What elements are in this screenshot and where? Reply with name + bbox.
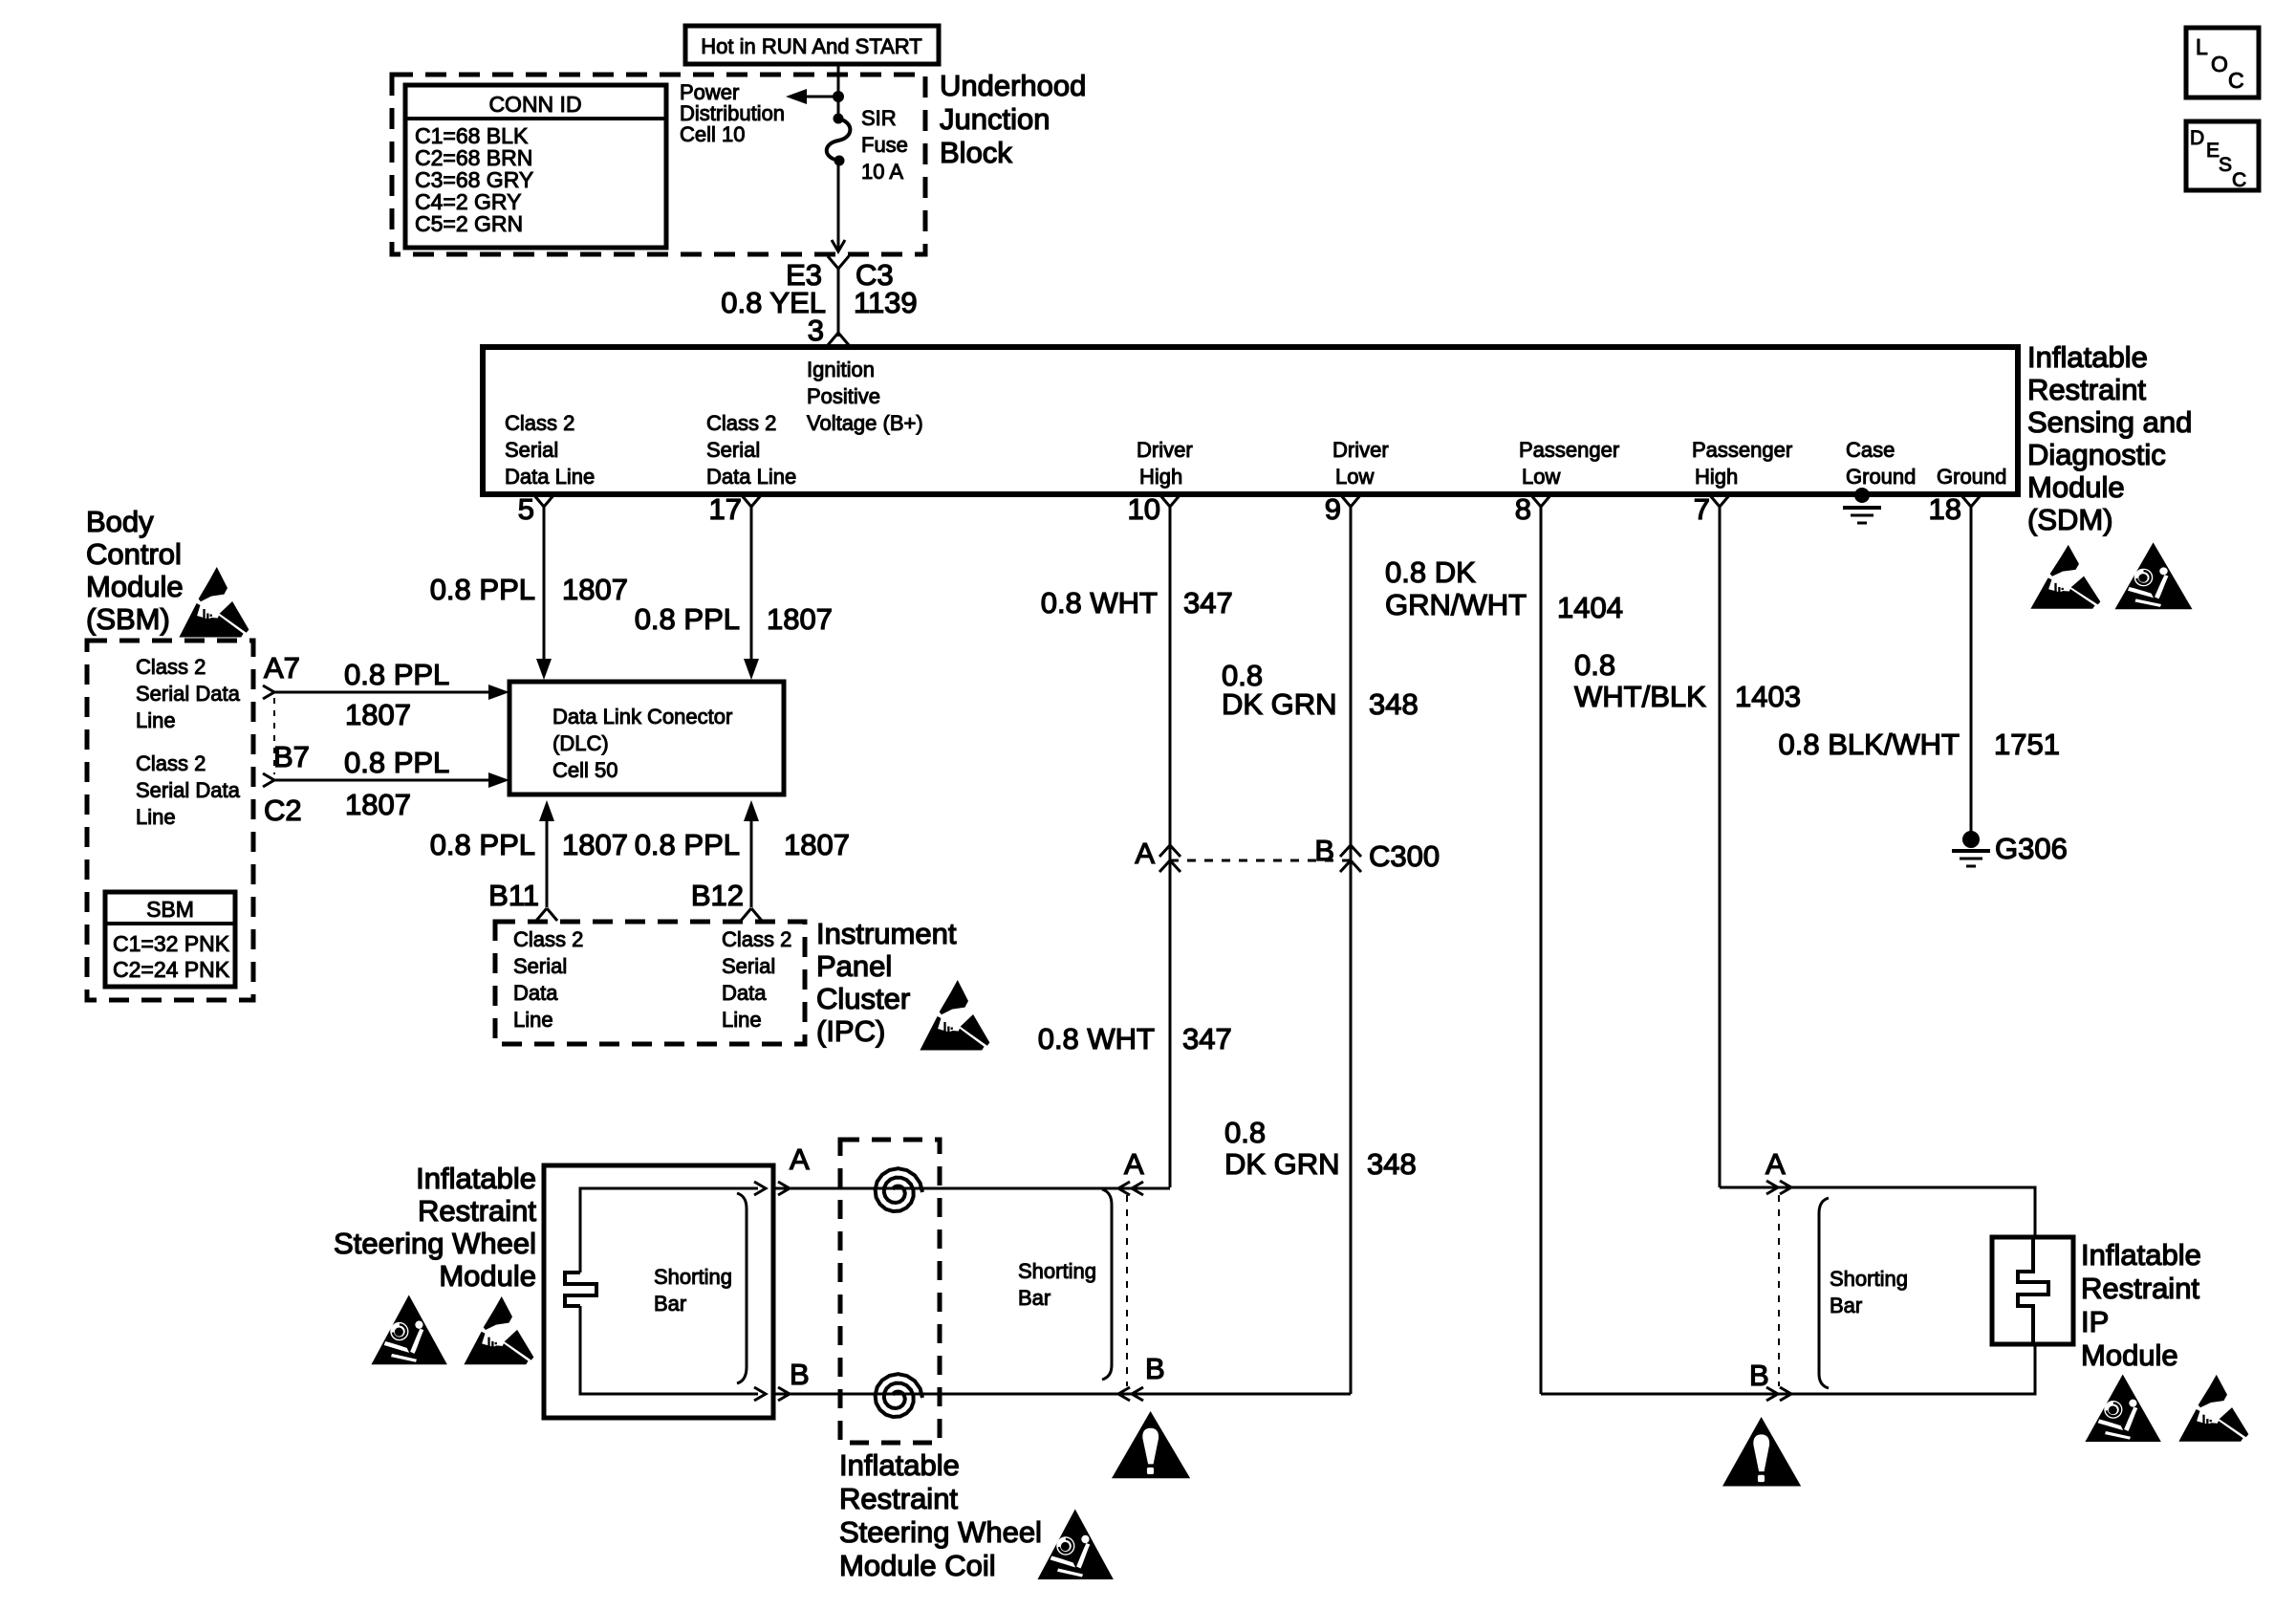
svg-text:Serial: Serial <box>505 438 558 462</box>
svg-text:G306: G306 <box>1995 832 2068 865</box>
svg-text:0.8 PPL: 0.8 PPL <box>635 828 740 861</box>
svg-text:Ground: Ground <box>1846 465 1916 489</box>
svg-text:Steering Wheel: Steering Wheel <box>839 1515 1042 1549</box>
wire C2 to DLC <box>274 779 492 782</box>
connector C300 <box>1170 859 1351 862</box>
svg-text:0.8 PPL: 0.8 PPL <box>635 602 740 636</box>
svg-text:8: 8 <box>1515 492 1531 526</box>
connector face dashed (coil side) <box>1126 1195 1128 1386</box>
ground G306 <box>1962 831 1980 848</box>
svg-text:Diagnostic: Diagnostic <box>2027 438 2166 471</box>
ESD icon near BCM label <box>179 567 249 638</box>
svg-text:1807: 1807 <box>345 788 411 821</box>
svg-text:Inflatable: Inflatable <box>416 1162 536 1195</box>
svg-text:17: 17 <box>709 492 742 526</box>
svg-text:Bar: Bar <box>1018 1286 1051 1310</box>
connector chevrons B (IP side) <box>1766 1387 1778 1401</box>
svg-text:B11: B11 <box>488 879 539 912</box>
LOC corner icon <box>2186 28 2259 98</box>
svg-text:Module: Module <box>86 570 184 603</box>
svg-text:CONN ID: CONN ID <box>488 92 581 117</box>
svg-text:Serial Data: Serial Data <box>136 682 241 706</box>
svg-text:Data Line: Data Line <box>505 465 595 489</box>
node junction dot <box>833 91 844 102</box>
svg-text:C1=32 PNK: C1=32 PNK <box>113 931 230 956</box>
wire pin 17 to DLC <box>750 507 753 664</box>
svg-text:B: B <box>1314 834 1334 867</box>
svg-text:IP: IP <box>2081 1305 2109 1338</box>
wire E3 to SDM pin 3 <box>837 269 840 337</box>
SWM internal wire top <box>580 1188 758 1273</box>
svg-text:Serial: Serial <box>722 954 775 978</box>
svg-text:Underhood: Underhood <box>940 69 1086 102</box>
svg-text:Serial: Serial <box>706 438 760 462</box>
svg-text:Line: Line <box>722 1008 762 1032</box>
wire B11 to DLC <box>546 816 549 907</box>
svg-text:High: High <box>1695 465 1738 489</box>
svg-text:D: D <box>2190 127 2204 149</box>
svg-text:Junction: Junction <box>940 102 1050 136</box>
SWM squib (driver inflator) <box>565 1273 596 1306</box>
svg-text:Data: Data <box>513 981 558 1005</box>
caution icon below B (IP side) <box>1722 1417 1801 1486</box>
wire A: SWM to wire 10 junction <box>773 1187 1170 1190</box>
svg-text:0.8 PPL: 0.8 PPL <box>344 658 449 691</box>
svg-text:Panel: Panel <box>816 949 892 983</box>
svg-text:Bar: Bar <box>1830 1294 1862 1317</box>
svg-text:348: 348 <box>1367 1147 1417 1181</box>
svg-text:Data: Data <box>722 981 767 1005</box>
svg-text:Module: Module <box>439 1259 536 1293</box>
svg-text:Low: Low <box>1335 465 1374 489</box>
svg-text:Class 2: Class 2 <box>136 655 206 679</box>
svg-text:Shorting: Shorting <box>1018 1259 1096 1283</box>
svg-text:C2: C2 <box>264 794 302 827</box>
wire pin 18 down to ground (BLK/WHT 1751) <box>1970 507 1973 832</box>
svg-text:SIR: SIR <box>861 106 897 130</box>
wire fuse to E3 <box>837 161 840 251</box>
svg-text:9: 9 <box>1325 492 1341 526</box>
svg-text:Block: Block <box>940 136 1012 169</box>
svg-text:Restraint: Restraint <box>839 1482 958 1515</box>
svg-text:Sensing and: Sensing and <box>2027 405 2192 439</box>
ESD icon near SWM label <box>464 1296 533 1364</box>
svg-text:1404: 1404 <box>1557 591 1623 624</box>
svg-text:L: L <box>2196 34 2208 59</box>
shorting bar bracket (IP side) <box>1819 1198 1829 1388</box>
svg-text:1139: 1139 <box>854 286 918 319</box>
svg-text:SBM: SBM <box>146 897 194 922</box>
connector chevrons A (IP side) <box>1766 1181 1778 1194</box>
svg-text:B: B <box>1749 1359 1769 1392</box>
wire pin 9 down (Driver Low 348) <box>1350 507 1353 1394</box>
svg-text:Class 2: Class 2 <box>505 411 574 435</box>
connector face dashed (IP side) <box>1778 1195 1780 1386</box>
svg-text:B7: B7 <box>273 740 310 773</box>
svg-text:Driver: Driver <box>1332 438 1389 462</box>
svg-text:1807: 1807 <box>562 573 628 606</box>
svg-text:(DLC): (DLC) <box>552 731 609 755</box>
wire B: SWM to wire 9 junction <box>773 1393 1351 1396</box>
wire pin 7 down (Passenger High 1403) <box>1719 507 1722 1187</box>
svg-text:Ignition: Ignition <box>807 358 875 381</box>
svg-text:A: A <box>1135 837 1155 870</box>
svg-text:1807: 1807 <box>562 828 628 861</box>
connector E3/C3 <box>828 256 849 269</box>
svg-text:Cell 10: Cell 10 <box>680 122 745 146</box>
wire B12 to DLC <box>750 816 753 907</box>
SDM module box <box>483 347 2018 494</box>
shorting bar bracket (coil side) <box>1102 1189 1112 1380</box>
coil spiral A <box>876 1168 922 1211</box>
svg-text:Inflatable: Inflatable <box>2027 340 2148 374</box>
airbag icon near IP label <box>2085 1374 2160 1442</box>
svg-text:0.8 PPL: 0.8 PPL <box>430 828 535 861</box>
svg-text:E: E <box>2206 140 2220 162</box>
svg-text:High: High <box>1139 465 1182 489</box>
caution icon below B (coil side) <box>1112 1411 1190 1478</box>
svg-text:Shorting: Shorting <box>654 1265 732 1289</box>
svg-text:0.8: 0.8 <box>1224 1116 1266 1149</box>
svg-text:Class 2: Class 2 <box>513 927 583 951</box>
DESC corner icon <box>2186 121 2259 190</box>
IP squib (passenger inflator) <box>2018 1237 2048 1344</box>
wire pin 5 to DLC <box>543 507 546 664</box>
airbag icon near coil label <box>1037 1510 1113 1580</box>
label box "Hot in RUN And START" <box>685 26 939 64</box>
arrow to power distribution (left) <box>795 96 838 98</box>
svg-text:Cell 50: Cell 50 <box>552 758 617 782</box>
svg-text:1403: 1403 <box>1735 680 1801 713</box>
svg-text:O: O <box>2211 52 2228 76</box>
svg-text:S: S <box>2219 154 2232 176</box>
svg-text:10 A: 10 A <box>861 160 903 184</box>
Underhood Junction Block dashed box <box>392 75 925 254</box>
wire from Hot box down <box>837 64 840 119</box>
svg-text:Ground: Ground <box>1937 465 2006 489</box>
svg-text:0.8 PPL: 0.8 PPL <box>430 573 535 606</box>
svg-text:Module: Module <box>2027 470 2125 504</box>
ESD icon near IP label <box>2178 1375 2248 1442</box>
svg-text:Voltage (B+): Voltage (B+) <box>807 411 923 435</box>
svg-text:Passenger: Passenger <box>1519 438 1619 462</box>
svg-text:Line: Line <box>136 805 176 829</box>
svg-text:1807: 1807 <box>784 828 850 861</box>
svg-text:Module: Module <box>2081 1338 2178 1372</box>
wire B: pin 8 corner to IP module <box>1541 1344 2035 1394</box>
svg-text:DK GRN: DK GRN <box>1224 1147 1340 1181</box>
svg-text:(IPC): (IPC) <box>816 1014 885 1048</box>
svg-text:Control: Control <box>86 537 182 571</box>
svg-text:Driver: Driver <box>1137 438 1193 462</box>
svg-text:Body: Body <box>86 505 154 538</box>
connector chevrons B (coil side) <box>1118 1387 1130 1401</box>
svg-text:GRN/WHT: GRN/WHT <box>1385 588 1527 621</box>
svg-text:Instrument: Instrument <box>816 917 957 950</box>
steering wheel module box <box>544 1165 773 1418</box>
svg-text:Positive: Positive <box>807 384 880 408</box>
DLC box <box>509 682 784 794</box>
svg-text:1807: 1807 <box>767 602 833 636</box>
svg-text:Steering Wheel: Steering Wheel <box>334 1227 536 1260</box>
svg-text:5: 5 <box>518 492 534 526</box>
svg-text:Case: Case <box>1846 438 1895 462</box>
svg-text:10: 10 <box>1128 492 1160 526</box>
svg-text:0.8 PPL: 0.8 PPL <box>344 746 449 779</box>
svg-text:Low: Low <box>1522 465 1560 489</box>
svg-text:Shorting: Shorting <box>1830 1267 1908 1291</box>
SWM shorting bar bracket <box>737 1193 747 1383</box>
ESD icon near SDM label <box>2030 545 2100 609</box>
svg-text:7: 7 <box>1694 492 1710 526</box>
fuse SIR Fuse 10 A <box>834 114 844 124</box>
IP module box <box>1992 1237 2073 1344</box>
svg-text:C300: C300 <box>1369 839 1440 873</box>
svg-text:A: A <box>790 1142 810 1176</box>
svg-text:Serial: Serial <box>513 954 567 978</box>
svg-text:Hot in RUN And START: Hot in RUN And START <box>701 34 921 58</box>
wire pin 8 down (Passenger Low 1404) <box>1540 507 1543 1394</box>
svg-text:WHT/BLK: WHT/BLK <box>1574 680 1706 713</box>
svg-text:Data Link Conector: Data Link Conector <box>552 705 732 729</box>
svg-text:Class 2: Class 2 <box>722 927 791 951</box>
svg-text:Class 2: Class 2 <box>706 411 776 435</box>
svg-text:B: B <box>790 1358 810 1391</box>
svg-text:348: 348 <box>1369 687 1419 721</box>
airbag icon near SDM label <box>2115 542 2193 609</box>
svg-text:Restraint: Restraint <box>2081 1272 2199 1305</box>
wire A7 to DLC <box>274 691 492 694</box>
svg-text:0.8 DK: 0.8 DK <box>1385 555 1476 589</box>
connector chevrons A (coil side) <box>1118 1182 1130 1195</box>
svg-text:Module Coil: Module Coil <box>839 1549 996 1582</box>
svg-text:Fuse: Fuse <box>861 133 908 157</box>
svg-text:Restraint: Restraint <box>418 1194 536 1228</box>
svg-text:B12: B12 <box>691 879 744 912</box>
svg-text:Bar: Bar <box>654 1292 686 1316</box>
svg-text:B: B <box>1145 1352 1165 1385</box>
svg-text:1751: 1751 <box>1994 728 2060 761</box>
svg-text:A: A <box>1124 1147 1144 1181</box>
svg-text:Line: Line <box>136 708 176 732</box>
ESD icon near IPC label <box>920 980 989 1051</box>
svg-text:Line: Line <box>513 1008 553 1032</box>
steering wheel module coil dashed box <box>840 1140 940 1443</box>
svg-text:DK GRN: DK GRN <box>1222 687 1337 721</box>
svg-text:3: 3 <box>808 314 824 347</box>
svg-text:0.8: 0.8 <box>1574 648 1615 682</box>
SWM internal wire bottom <box>580 1306 758 1394</box>
svg-text:Inflatable: Inflatable <box>839 1448 960 1482</box>
svg-text:Restraint: Restraint <box>2027 373 2146 406</box>
BCM dashed box <box>87 641 253 1000</box>
svg-text:0.8 WHT: 0.8 WHT <box>1038 1022 1155 1055</box>
svg-text:A: A <box>1765 1147 1786 1181</box>
svg-text:(SDM): (SDM) <box>2027 503 2113 536</box>
svg-text:0.8 WHT: 0.8 WHT <box>1041 586 1158 620</box>
svg-text:C2=24 PNK: C2=24 PNK <box>113 957 230 982</box>
airbag icon near SWM label <box>371 1295 446 1364</box>
svg-text:347: 347 <box>1183 586 1233 620</box>
svg-text:0.8 BLK/WHT: 0.8 BLK/WHT <box>1779 728 1960 761</box>
svg-text:(SBM): (SBM) <box>86 602 170 636</box>
case ground symbol on box edge <box>1854 488 1870 503</box>
svg-text:Cluster: Cluster <box>816 982 910 1015</box>
svg-text:C: C <box>2228 68 2244 93</box>
wire A: pin 7 corner to IP module <box>1720 1187 2035 1237</box>
svg-text:Serial Data: Serial Data <box>136 778 241 802</box>
coil spiral B <box>876 1374 922 1417</box>
wire pin 10 down (Driver High 347) <box>1169 507 1172 1187</box>
svg-text:A7: A7 <box>264 651 300 685</box>
svg-text:Class 2: Class 2 <box>136 751 206 775</box>
SBM table <box>105 892 235 987</box>
connector dashed face A7-C2 <box>273 698 275 774</box>
svg-text:Passenger: Passenger <box>1692 438 1792 462</box>
svg-text:347: 347 <box>1182 1022 1232 1055</box>
svg-text:C5=2 GRN: C5=2 GRN <box>415 211 523 236</box>
svg-text:1807: 1807 <box>345 698 411 731</box>
IPC dashed box <box>495 922 805 1044</box>
svg-text:Data Line: Data Line <box>706 465 796 489</box>
svg-text:18: 18 <box>1929 492 1961 526</box>
svg-text:C: C <box>2232 169 2246 191</box>
CONN ID table <box>405 85 666 248</box>
svg-text:Inflatable: Inflatable <box>2081 1238 2201 1272</box>
